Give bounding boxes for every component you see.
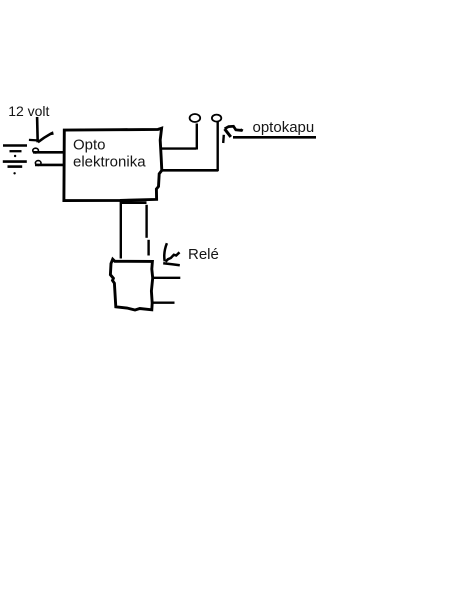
svg-text:Relé: Relé <box>188 246 219 263</box>
svg-text:Opto: Opto <box>73 137 106 154</box>
svg-text:12 volt: 12 volt <box>8 103 49 119</box>
svg-text:optokapu: optokapu <box>253 119 315 136</box>
svg-text:elektronika: elektronika <box>73 154 146 171</box>
